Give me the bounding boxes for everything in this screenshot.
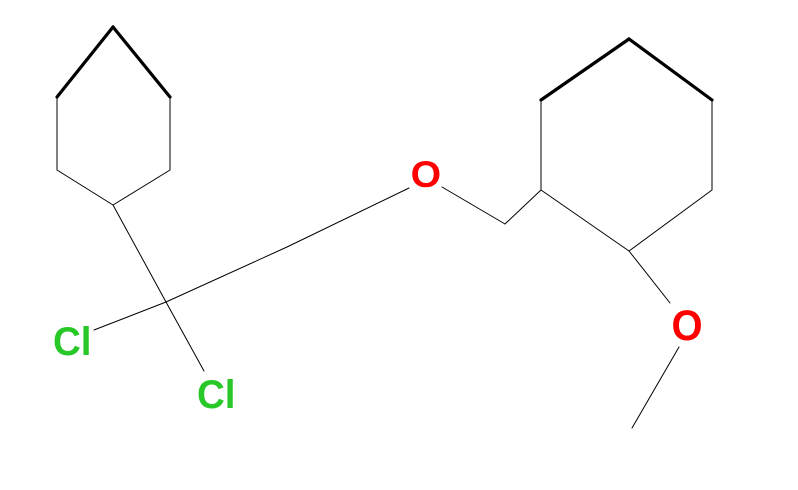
bridge bond left A-B1 (bold) xyxy=(57,27,113,97)
bond E-Cl1 xyxy=(94,302,166,330)
svg-text:Cl: Cl xyxy=(197,373,236,417)
bridge bond right F-G1 (bold) xyxy=(541,39,629,100)
skeletal bond group xyxy=(57,27,712,428)
ring B left vertical G1-H1 xyxy=(540,100,542,190)
bond E-Cl2 xyxy=(166,302,204,371)
bond I-O2 xyxy=(629,251,670,303)
svg-text:O: O xyxy=(411,153,442,195)
ring A right vertical B2-C2 xyxy=(169,97,171,170)
chain E to O1 (two nearly collinear bonds) xyxy=(166,188,409,302)
ring B bottom-left H1-I xyxy=(541,190,629,251)
ring A bottom-right C2-D xyxy=(113,170,170,205)
bond W1-H1 xyxy=(505,190,541,224)
bond O1-W1 xyxy=(442,187,505,224)
bond D-E (to CCl2 carbon) xyxy=(113,205,166,302)
bridge bond right F-G2 (bold) xyxy=(629,39,712,100)
ring B bottom-right H2-I xyxy=(629,190,712,251)
ring A left vertical B1-C1 xyxy=(56,97,58,170)
ring B right vertical G2-H2 xyxy=(711,100,713,190)
bond O2-CH3 xyxy=(632,347,679,428)
bridge bond left A-B2 (bold) xyxy=(113,27,170,97)
svg-text:Cl: Cl xyxy=(53,320,92,364)
ring A bottom-left C1-D xyxy=(57,170,113,205)
svg-text:O: O xyxy=(672,302,703,350)
